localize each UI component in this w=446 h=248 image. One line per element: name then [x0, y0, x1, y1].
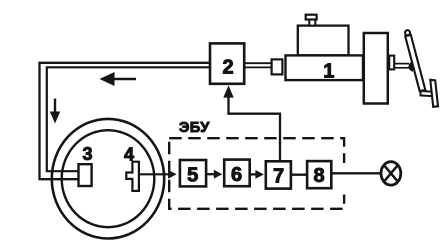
arrow 6 to 7: [250, 173, 256, 175]
master cylinder body 1: [286, 55, 364, 80]
reservoir cap stem: [309, 19, 315, 25]
reservoir cap top: [306, 15, 317, 20]
white mask over dashed right edge at lamp wire: [341, 163, 349, 195]
pushrod block2 to master cylinder (double line): [244, 63, 271, 67]
sensor signal wire to ECU: [140, 173, 170, 175]
wire 7 to 8: [291, 173, 307, 175]
sensor rotor 4: [126, 162, 139, 191]
pushrod collar: [272, 59, 283, 74]
svg-text:5: 5: [187, 164, 198, 186]
wheel outer circle: [52, 119, 164, 239]
svg-text:8: 8: [314, 165, 325, 187]
control line from block 7 to block 2: [229, 97, 281, 162]
svg-text:3: 3: [82, 144, 92, 164]
svg-text:4: 4: [124, 145, 134, 165]
reservoir: [298, 26, 349, 56]
svg-text:7: 7: [273, 165, 284, 187]
mounting bracket plate: [364, 33, 388, 104]
ECU dashed box: [169, 138, 344, 209]
block 7: [266, 161, 291, 188]
ball joint: [408, 61, 413, 72]
pedal pushrod double line: [395, 64, 410, 68]
wheel inner circle: [62, 130, 155, 227]
block 6: [224, 160, 250, 187]
flow arrow left (on top pipe): [100, 72, 137, 86]
svg-text:6: 6: [231, 164, 242, 186]
arrow 5 to 6: [206, 173, 215, 175]
pedal pad: [430, 80, 438, 107]
pedal pivot eye: [405, 30, 410, 35]
block 5: [180, 160, 206, 186]
warning lamp: [381, 162, 401, 185]
flow arrow down (on left pipe): [50, 99, 60, 124]
pedal link: [421, 91, 434, 96]
pedal lever arm: [405, 35, 425, 91]
arrowhead into block 5: [168, 170, 177, 179]
wheel sensor block 3: [79, 164, 92, 186]
pedal pushrod connector: [389, 56, 394, 70]
block 2 (modulator): [210, 43, 244, 83]
svg-text:ЭБУ: ЭБУ: [179, 120, 210, 136]
block 8: [307, 161, 331, 188]
wire 8 to warning lamp: [331, 172, 381, 174]
svg-text:2: 2: [222, 56, 233, 78]
wire hydraulic pipe outer line (block 2 to wheel): [40, 63, 211, 179]
arrowhead into block 2: [223, 85, 233, 97]
wire hydraulic pipe inner line (block 2 to wheel): [47, 67, 211, 171]
svg-text:1: 1: [323, 61, 334, 83]
